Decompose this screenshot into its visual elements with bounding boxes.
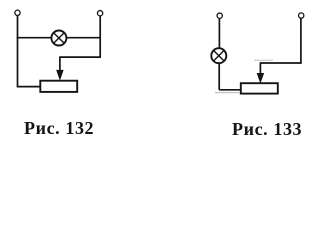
wire (upper rail to wiper of R2) xyxy=(260,62,301,64)
wire (T3 down to lamp) xyxy=(218,18,220,48)
svg-text:Рис. 132: Рис. 132 xyxy=(24,118,94,138)
wire (T4 down) xyxy=(300,18,302,63)
terminal T2 (left circuit, right clamp) xyxy=(97,11,102,16)
rheostat R2 body xyxy=(241,83,278,93)
wire (lamp down to bottom rail) xyxy=(218,63,220,90)
rheostat R1 body xyxy=(40,81,77,92)
wiper arrow of rheostat R2 xyxy=(257,62,264,82)
wiper arrow of rheostat R1 xyxy=(57,56,64,79)
wire (right vertical from T2 down) xyxy=(99,16,101,57)
wire (middle rail to wiper) xyxy=(60,56,101,58)
wire (bottom rail to rheostat R2 left end) xyxy=(219,89,241,91)
lamp HL1 (circle with X) xyxy=(51,31,66,46)
wire (bottom rail to rheostat R1 left end) xyxy=(17,86,41,88)
wire (left vertical, T1 down to bottom rail) xyxy=(17,16,19,87)
lamp HL2 (circle with X) xyxy=(211,48,226,63)
wire (top rail left segment to lamp) xyxy=(17,37,52,39)
wire (top rail lamp to right vertical) xyxy=(66,37,101,39)
svg-text:Рис. 133: Рис. 133 xyxy=(232,119,302,139)
terminal T1 (left circuit, left clamp) xyxy=(15,10,20,15)
terminal T4 (right circuit, right clamp) xyxy=(299,13,304,18)
wire (scan ghost above right upper rail) xyxy=(254,59,273,61)
terminal T3 (right circuit, left clamp) xyxy=(217,13,222,18)
wire (scan ghost below right bottom rail) xyxy=(215,92,240,94)
